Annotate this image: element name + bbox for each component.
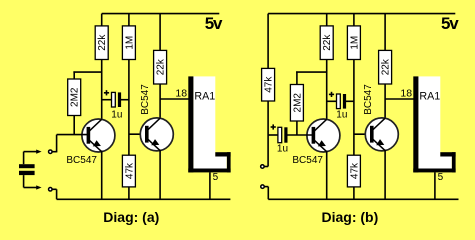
circuit (b): resistor 47k (input bias) [262, 68, 275, 101]
svg-text:47k: 47k [124, 162, 135, 179]
circuit (a): wire bottom terminal to ground rail [52, 188, 56, 190]
svg-text:RA1: RA1 [419, 90, 440, 102]
circuit (b): wire rail to 22k collector resistor [326, 14, 328, 26]
circuit (a): wire rail to 1M [128, 14, 130, 26]
circuit (b): wire 22k to Q2 collector / output node [384, 84, 386, 119]
circuit (a): wire RA1 pin 5 to ground rail [209, 172, 211, 199]
svg-text:22k: 22k [322, 34, 333, 51]
svg-text:1u: 1u [336, 110, 347, 121]
circuit (a): 5v power rail wire [102, 13, 220, 15]
circuit (a): resistor 1M (Q2 base bias) [122, 26, 135, 60]
circuit (a): coupling cap polarity + [104, 90, 109, 95]
svg-text:2M2: 2M2 [70, 87, 81, 107]
circuit (a): wire Q2 emitter to ground rail [159, 150, 161, 200]
circuit (a): IC block RA1: chip outline [188, 76, 230, 172]
circuit (b): resistor 22k (Q1 collector load) [320, 26, 333, 60]
circuit (a): resistor 47k (Q2 base to ground) [122, 155, 135, 187]
circuit (b): wire 47k to ground rail [353, 187, 355, 199]
circuit (b): wire output node to RA1 pin 18 [385, 98, 415, 100]
circuit (a): capacitor 1u interstage coupling [112, 92, 122, 107]
circuit (a): wire 22k to Q1 collector node [101, 60, 103, 120]
circuit (b): resistor 1M (Q2 base bias) [347, 26, 360, 60]
circuit (a): transistor Q2 BC547 [140, 84, 174, 151]
circuit (b): wire Q2 base [354, 133, 372, 135]
circuit (b): 5v power rail wire [268, 13, 455, 15]
circuit (a): wire 47k to ground rail [128, 187, 130, 199]
svg-text:1M: 1M [349, 36, 360, 50]
circuit (b): ground rail wire [268, 198, 458, 200]
circuit (a): wire coupling cap to Q2 base line [121, 99, 129, 101]
svg-text:BC547: BC547 [363, 84, 374, 115]
circuit (b): wire input cap to Q1 base [287, 134, 313, 136]
circuit (a): wire input terminal to Q1 base [52, 151, 56, 153]
circuit (a): resistor 22k (Q2 collector load) [154, 50, 167, 84]
svg-text:BC547: BC547 [292, 155, 323, 166]
circuit (b): wire Q2 emitter to ground rail [384, 150, 386, 200]
circuit (a): electret microphone capsule [19, 164, 35, 168]
svg-text:18: 18 [400, 87, 412, 99]
circuit (b): wire rail to second 22k [384, 14, 386, 51]
circuit (b): wire coupling cap to Q2 base line [346, 100, 354, 102]
circuit (b): wire Q1 emitter to ground rail [326, 151, 328, 200]
circuit (b): wire bottom terminal to ground rail [265, 186, 269, 188]
svg-text:RA1: RA1 [194, 90, 215, 102]
svg-text:Diag: (b): Diag: (b) [322, 209, 379, 225]
circuit (b): wire input terminal to input node [264, 166, 268, 168]
svg-text:47k: 47k [349, 162, 360, 179]
circuit (b): input cap polarity + [271, 124, 276, 129]
svg-text:1M: 1M [124, 36, 135, 50]
svg-text:2M2: 2M2 [292, 93, 303, 113]
circuit (a): wire rail to 22k collector resistor [101, 14, 103, 26]
circuit (b): IC block RA1: chip outline [413, 76, 455, 172]
svg-text:22k: 22k [97, 34, 108, 51]
circuit (a): wire mic bottom lead with arrow [23, 175, 25, 187]
svg-text:5: 5 [213, 172, 219, 183]
circuit (b): input terminal node (top) [261, 165, 265, 169]
svg-text:BC547: BC547 [66, 155, 97, 166]
circuit (a): wire 2M2 bottom to Q1 base [73, 116, 75, 135]
svg-text:47k: 47k [264, 76, 275, 93]
circuit (a): wire collector node to 2M2 top [73, 71, 75, 79]
circuit (a): ground rail wire [57, 198, 231, 200]
circuit (b): wire RA1 pin 5 to ground rail [434, 172, 436, 199]
svg-text:BC547: BC547 [140, 84, 151, 115]
circuit (b): resistor 22k (Q2 collector load) [379, 50, 392, 84]
svg-text:5v: 5v [205, 14, 223, 33]
svg-text:22k: 22k [156, 58, 167, 75]
svg-text:22k: 22k [381, 58, 392, 75]
circuit (b): coupling cap polarity + [329, 92, 334, 97]
svg-text:5v: 5v [441, 14, 459, 33]
svg-text:5: 5 [438, 172, 444, 183]
circuit (a): wire rail to second 22k [159, 14, 161, 51]
circuit (b): wire input node to input cap [268, 134, 278, 136]
circuit (a): wire Q1 collector to coupling cap [102, 99, 112, 101]
circuit (a): wire mic top lead with arrow [23, 152, 25, 165]
svg-text:1u: 1u [277, 143, 288, 154]
circuit (b): input terminal node (bottom) [261, 185, 265, 189]
circuit (a): input terminal node (top) [49, 150, 53, 154]
circuit (b): wire 1M to Q2 base node [353, 60, 355, 156]
svg-text:18: 18 [175, 87, 187, 99]
circuit (a): transistor Q1 BC547 [66, 119, 115, 166]
circuit (b): wire Q1 collector to coupling cap [327, 100, 337, 102]
circuit (a): wire Q1 emitter to ground rail [101, 151, 103, 200]
circuit (b): wire 47k to input node [267, 101, 269, 167]
circuit (b): capacitor 1u interstage coupling [337, 94, 347, 109]
circuit (b): wire 2M2 bottom to Q1 base [296, 121, 298, 135]
circuit (a): wire output node to RA1 pin 18 [160, 98, 190, 100]
circuit (b): wire 22k to Q1 collector node [326, 60, 328, 120]
circuit (b): capacitor 1u input coupling [278, 127, 288, 142]
circuit (a): wire 1M to Q2 base node [128, 60, 130, 156]
circuit (a): resistor 22k (Q1 collector load) [95, 26, 108, 60]
svg-text:Diag: (a): Diag: (a) [103, 209, 159, 225]
svg-text:1u: 1u [111, 110, 122, 121]
circuit (b): wire rail down to input 47k [267, 14, 269, 69]
circuit (b): resistor 47k (Q2 base to ground) [347, 155, 360, 187]
circuit (a): wire Q2 base [129, 133, 147, 135]
circuit (b): transistor Q1 BC547 [292, 119, 340, 166]
circuit (b): transistor Q2 BC547 [363, 84, 398, 151]
circuit (b): wire rail to 1M [353, 14, 355, 26]
circuit (b): wire collector node to 2M2 top [296, 71, 298, 84]
circuit (a): input terminal node (bottom) [49, 188, 53, 192]
circuit (a): resistor 2M2 (feedback bias) [68, 79, 81, 116]
circuit (a): wire 22k to Q2 collector / output node [159, 84, 161, 119]
circuit (b): resistor 2M2 (feedback bias) [290, 85, 303, 122]
